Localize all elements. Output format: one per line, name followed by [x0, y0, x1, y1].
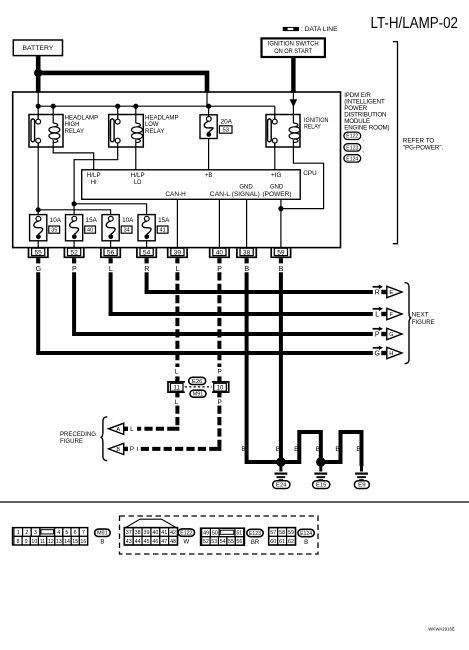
svg-text:RELAY: RELAY [65, 128, 84, 135]
svg-text:55: 55 [35, 249, 43, 256]
node L to next figure arrow F [373, 307, 402, 320]
ground E24 [273, 457, 290, 488]
svg-text:P: P [130, 446, 134, 453]
svg-text:35: 35 [51, 228, 57, 234]
svg-text:GND: GND [270, 184, 284, 190]
svg-text:(SIGNAL): (SIGNAL) [232, 192, 260, 198]
pin 40 [210, 248, 229, 264]
battery [13, 40, 62, 56]
svg-text:RELAY: RELAY [304, 124, 321, 131]
svg-text:10A: 10A [50, 218, 61, 224]
svg-text:50: 50 [212, 531, 218, 537]
svg-text:CAN-L: CAN-L [210, 192, 231, 198]
svg-text:40: 40 [216, 249, 224, 256]
svg-text:E24: E24 [276, 483, 287, 489]
svg-text:B: B [294, 446, 298, 453]
svg-text:43: 43 [126, 539, 132, 545]
svg-text:49: 49 [203, 531, 209, 537]
svg-text:WKWA2916E: WKWA2916E [428, 627, 455, 633]
svg-text:E122: E122 [346, 134, 358, 140]
svg-text:CPU: CPU [303, 170, 317, 177]
svg-text:H/LP: H/LP [87, 173, 101, 179]
svg-text:W: W [183, 539, 189, 545]
preceding figure arrow A [109, 423, 129, 434]
svg-text:B: B [279, 266, 284, 273]
svg-text:IGNITION SWITCH: IGNITION SWITCH [268, 41, 319, 48]
connector E123 [344, 144, 361, 151]
ignition switch ON or START [262, 38, 325, 57]
ignition relay [266, 115, 329, 148]
svg-text:15: 15 [72, 539, 78, 545]
svg-text:M91: M91 [97, 531, 108, 537]
svg-text:FIGURE: FIGURE [412, 319, 435, 326]
svg-text:E15: E15 [316, 483, 327, 489]
connector mating line [185, 386, 212, 388]
wire B pin59 to ground E24 [279, 272, 283, 462]
junction bus relay2 coil [133, 104, 138, 109]
junction fuse40 [72, 201, 77, 206]
svg-text:13: 13 [56, 539, 62, 545]
preceding figure brace [101, 417, 108, 461]
svg-text:L: L [175, 368, 179, 375]
svg-text:B: B [241, 446, 245, 453]
refer to bracket [393, 42, 398, 244]
wire CAN-H data line pin39 to connector [175, 272, 179, 367]
IPDM connector group dashed box [120, 516, 319, 554]
svg-text:15A: 15A [86, 218, 97, 224]
wire relay1 contact to fuse bus [37, 143, 39, 210]
pin 59 [271, 248, 290, 264]
svg-text:B: B [316, 446, 320, 453]
connector E26/M91 pin 10 [212, 376, 229, 397]
svg-text:CAN-H: CAN-H [165, 192, 185, 198]
connector table M91 [13, 528, 88, 545]
svg-text:L: L [109, 266, 113, 273]
wire relay2 contact to fuse bus [74, 147, 118, 204]
svg-text:REFER TO: REFER TO [403, 137, 435, 144]
svg-text:1: 1 [17, 530, 20, 536]
junction bus fuse 53 [206, 104, 211, 109]
headlamp low relay [109, 115, 179, 148]
wire L data line to preceding figure A [175, 406, 179, 427]
svg-text:44: 44 [135, 539, 141, 545]
svg-text:8: 8 [16, 539, 19, 545]
wire P data line to preceding figure B [217, 406, 221, 447]
svg-text:40: 40 [87, 228, 93, 234]
svg-text:L: L [176, 266, 180, 273]
svg-text:48: 48 [170, 539, 176, 545]
svg-text:P: P [217, 368, 221, 375]
svg-text:4: 4 [57, 530, 60, 536]
svg-text:LT-H/LAMP-02: LT-H/LAMP-02 [371, 15, 459, 32]
connector M91 id [95, 529, 111, 536]
fuse 15A 41 [138, 215, 169, 248]
svg-text:B: B [356, 446, 360, 453]
svg-text:H/LP: H/LP [131, 173, 145, 179]
fuse 20A 53 [200, 115, 233, 139]
svg-text:P: P [217, 266, 222, 273]
svg-text:54: 54 [143, 249, 151, 256]
svg-text:F: F [390, 312, 394, 318]
svg-text:+IG: +IG [271, 173, 282, 179]
junction bus relay1 coil [51, 104, 56, 109]
svg-text:41: 41 [161, 530, 167, 536]
preceding figure arrow B [109, 443, 129, 454]
svg-text:E9: E9 [358, 483, 366, 489]
wire CAN-H to pin39 [176, 199, 178, 247]
svg-text:H: H [389, 351, 393, 357]
wire B jumper E15 to E9 [321, 432, 362, 466]
connector table E123 [201, 528, 245, 545]
svg-text:10: 10 [217, 386, 224, 392]
svg-text:RELAY: RELAY [145, 128, 164, 135]
pin 56 [101, 248, 120, 264]
junction bus battery [36, 104, 41, 109]
arrow into IPDM [290, 99, 298, 107]
svg-text:ENGINE ROOM): ENGINE ROOM) [344, 124, 389, 131]
svg-text:2: 2 [25, 530, 28, 536]
svg-text:56: 56 [236, 539, 242, 545]
wire relay1 coil to H/LP HI [53, 147, 93, 170]
svg-text:52: 52 [203, 539, 209, 545]
svg-text:53: 53 [211, 539, 217, 545]
connector E122 [344, 132, 361, 139]
svg-text:A: A [116, 427, 120, 433]
pin 52 [64, 248, 83, 264]
svg-text:61: 61 [279, 539, 285, 545]
wire battery bus to box [38, 73, 207, 92]
svg-text:E122: E122 [180, 530, 192, 536]
pin 54 [137, 248, 156, 264]
svg-text:55: 55 [228, 539, 234, 545]
wire CAN-L to pin40 [218, 199, 220, 247]
wire R to next figure [145, 272, 149, 292]
svg-text:+B: +B [205, 173, 213, 179]
data line legend [283, 26, 338, 33]
IPDM E/R label block [344, 92, 389, 131]
svg-text:7: 7 [82, 530, 85, 536]
connector M91 [190, 390, 206, 397]
connector E123 id [247, 529, 263, 536]
ground E15 [313, 457, 330, 488]
pin 38 [237, 248, 256, 264]
svg-text:(POWER): (POWER) [263, 192, 292, 198]
svg-text:20A: 20A [221, 118, 233, 125]
svg-text:G: G [375, 350, 380, 357]
svg-text:60: 60 [270, 539, 276, 545]
svg-text:11: 11 [174, 386, 181, 392]
svg-text:B: B [335, 446, 339, 453]
next figure brace [405, 283, 412, 364]
svg-text:57: 57 [270, 530, 276, 536]
svg-text:6: 6 [74, 530, 77, 536]
svg-text:39: 39 [143, 530, 149, 536]
svg-text:37: 37 [126, 530, 132, 536]
fuse 10A 34 [102, 215, 133, 248]
svg-text:14: 14 [64, 539, 70, 545]
wire high beam fuse bus [38, 210, 110, 215]
junction bus relay2 contact [115, 104, 120, 109]
svg-text:B: B [244, 266, 249, 273]
wire low beam fuse bus [74, 204, 147, 215]
svg-text:46: 46 [152, 539, 158, 545]
svg-text:M91: M91 [193, 392, 204, 398]
node P to next figure arrow G [373, 327, 402, 340]
svg-text:E124: E124 [300, 531, 312, 537]
svg-text:40: 40 [152, 530, 158, 536]
svg-text:G: G [36, 266, 41, 273]
junction fuse35 [36, 207, 41, 212]
svg-text:45: 45 [143, 539, 149, 545]
svg-text:R: R [375, 289, 380, 296]
svg-text:P: P [375, 331, 380, 338]
svg-text:GND: GND [239, 184, 253, 190]
svg-text:54: 54 [220, 539, 226, 545]
svg-text:3: 3 [34, 530, 37, 536]
svg-text:10: 10 [31, 539, 37, 545]
svg-text:42: 42 [170, 530, 176, 536]
svg-text:E: E [389, 290, 393, 296]
wire G to next figure [36, 272, 40, 353]
headlamp high relay [29, 115, 98, 148]
svg-text:HI: HI [91, 180, 97, 186]
svg-text:12: 12 [48, 539, 54, 545]
wire GND POWER to pin59 [280, 199, 282, 247]
svg-text:B: B [304, 540, 308, 546]
svg-text:5: 5 [65, 530, 68, 536]
svg-text:59: 59 [288, 530, 294, 536]
svg-text:53: 53 [222, 128, 228, 134]
svg-text:B: B [276, 446, 280, 453]
svg-text:P: P [217, 399, 221, 406]
svg-text:10A: 10A [122, 218, 133, 224]
svg-text:34: 34 [123, 228, 129, 234]
wire battery vertical feed [36, 56, 41, 92]
wire L to next figure [109, 272, 113, 314]
svg-text:FIGURE: FIGURE [60, 438, 83, 445]
svg-text:51: 51 [236, 531, 242, 537]
wire B pin38 to ground E24 [247, 272, 281, 462]
wire ignition switch feed [291, 57, 295, 93]
svg-text:L: L [130, 426, 134, 433]
svg-text:R: R [144, 266, 149, 273]
svg-text:47: 47 [161, 539, 167, 545]
connector E122 id [178, 529, 194, 536]
svg-text:E123: E123 [249, 531, 261, 537]
IPDM E/R box [13, 92, 341, 248]
pin 55 [29, 248, 48, 264]
svg-text:PRECEDING: PRECEDING [60, 431, 96, 438]
junction GND POWER [278, 206, 283, 211]
svg-text:52: 52 [70, 249, 78, 256]
svg-text:B: B [116, 447, 120, 453]
svg-text:P: P [72, 266, 77, 273]
svg-text:BATTERY: BATTERY [22, 45, 54, 52]
svg-text:L: L [375, 311, 379, 318]
svg-text:15A: 15A [158, 218, 169, 224]
connector table E122 [124, 519, 177, 545]
connector E26 [189, 377, 206, 384]
wire relay2 coil to H/LP LO [135, 147, 137, 170]
svg-text:59: 59 [277, 249, 285, 256]
svg-text:"PG-POWER".: "PG-POWER". [403, 145, 444, 152]
svg-text:E123: E123 [346, 145, 358, 151]
svg-text:9: 9 [25, 539, 28, 545]
svg-text:B: B [100, 539, 104, 545]
svg-text:NEXT: NEXT [412, 312, 429, 319]
wire ignition relay coil return [281, 147, 324, 209]
connector E26/M91 pin 11 [168, 376, 185, 397]
svg-text:E26: E26 [192, 379, 203, 385]
svg-text:38: 38 [243, 249, 251, 256]
junction battery bus [34, 69, 42, 77]
separator line [0, 501, 469, 503]
svg-text:LO: LO [134, 180, 142, 186]
wire internal supply bus [37, 92, 39, 119]
node G to next figure arrow H [373, 346, 402, 359]
wire P to next figure [72, 272, 76, 334]
svg-text:16: 16 [80, 539, 86, 545]
connector table E124 [269, 528, 296, 545]
svg-text:ON OR START: ON OR START [274, 48, 312, 55]
pin 39 [168, 248, 187, 264]
svg-text:G: G [389, 332, 393, 338]
svg-text:39: 39 [174, 249, 182, 256]
ground E9 [354, 462, 369, 489]
svg-text:: DATA LINE: : DATA LINE [301, 26, 338, 33]
svg-text:62: 62 [288, 539, 294, 545]
wire ignition relay to +IG [274, 143, 276, 170]
CPU box [82, 170, 317, 200]
svg-text:56: 56 [107, 249, 115, 256]
fuse 10A 35 [30, 215, 61, 248]
connector E124 [344, 155, 361, 162]
wire fuse53 to +B [208, 139, 210, 170]
svg-text:BR: BR [251, 540, 260, 546]
wire B jumper E24 to E15 [281, 432, 321, 462]
svg-text:58: 58 [279, 530, 285, 536]
wire GND SIGNAL to pin38 [246, 199, 248, 247]
svg-text:41: 41 [159, 228, 165, 234]
svg-text:38: 38 [135, 530, 141, 536]
svg-text:E124: E124 [346, 156, 358, 162]
svg-text:11: 11 [40, 539, 46, 545]
wire CAN-L data line pin40 to connector [217, 272, 221, 367]
svg-text:L: L [175, 399, 179, 406]
fuse 15A 40 [66, 215, 97, 248]
node R to next figure arrow E [373, 285, 402, 298]
connector E124 id [298, 529, 314, 536]
